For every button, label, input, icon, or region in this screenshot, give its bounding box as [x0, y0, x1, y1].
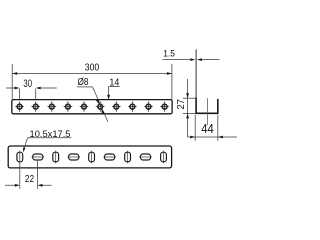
slot S1 (10.5x17.5 vertical)	[17, 151, 23, 164]
hole H3 (Ø8)	[48, 101, 57, 111]
dimension 44	[188, 115, 237, 141]
hole H6 (Ø8)	[96, 101, 105, 111]
dimension 27	[176, 79, 197, 137]
slot S3 (10.5x17.5 vertical)	[53, 151, 59, 164]
side view rail body	[12, 100, 172, 114]
svg-text:27: 27	[176, 99, 187, 110]
cross-section bottom	[195, 112, 218, 114]
hole H2 (Ø8)	[31, 101, 40, 111]
svg-text:1.5: 1.5	[163, 49, 175, 59]
svg-text:22: 22	[25, 174, 34, 185]
hole H9 (Ø8)	[144, 101, 153, 111]
slot S9 (10.5x17.5 vertical)	[161, 151, 167, 164]
slot S6 (10.5x17.5 horizontal)	[103, 154, 116, 160]
slot S4 (10.5x17.5 horizontal)	[67, 154, 80, 160]
hole H8 (Ø8)	[128, 101, 137, 111]
top view rail body	[8, 146, 171, 168]
hole H7 (Ø8)	[112, 101, 121, 111]
svg-text:30: 30	[23, 78, 32, 90]
svg-text:300: 300	[85, 62, 100, 73]
hole H4 (Ø8)	[64, 101, 73, 111]
hole H1 (Ø8)	[15, 101, 24, 111]
dimension 22	[5, 161, 52, 189]
svg-text:10.5x17.5: 10.5x17.5	[30, 129, 71, 139]
dimension 1.5	[163, 49, 220, 61]
dimension 300	[12, 62, 172, 99]
hole H5 (Ø8)	[80, 101, 89, 111]
slot S8 (10.5x17.5 horizontal)	[139, 154, 152, 160]
slot S5 (10.5x17.5 vertical)	[89, 151, 95, 164]
label 14 with leader arrow to top edge	[107, 77, 120, 99]
cross-section left wall (with extension up)	[195, 50, 197, 114]
slot S2 (10.5x17.5 horizontal)	[32, 154, 45, 160]
cross-section hole center line	[206, 98, 208, 125]
hole H10 (Ø8)	[160, 101, 169, 111]
label Ø8 with leader through hole	[77, 77, 108, 121]
label 10.5x17.5 with leader to slot	[23, 129, 71, 152]
svg-text:44: 44	[201, 121, 214, 136]
dimension 30	[6, 78, 57, 100]
cross-section right wall	[217, 99, 219, 114]
slot S7 (10.5x17.5 vertical)	[125, 151, 131, 164]
